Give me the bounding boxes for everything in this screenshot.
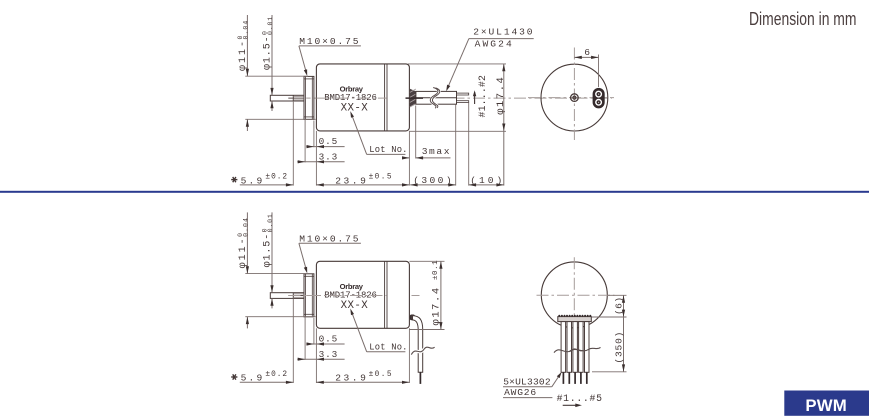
shaft [270,95,304,101]
dimension line 3max [402,157,409,159]
Lot No. leader line [351,114,367,155]
stripped conductor (PWM side view) [419,372,421,384]
UL3302 leader line [552,374,561,387]
connector serration dots [558,315,560,317]
asterisk mark [231,179,237,181]
dimension 0.5 extension lines [313,121,315,148]
shaft step line [292,95,294,101]
svg-text:0.04: 0.04 [243,20,250,40]
dimension line 0.5 [306,343,344,345]
centerline (side view axis, PWM variant) [289,295,420,297]
svg-text:5.9: 5.9 [241,175,265,186]
label phi11 -0/-0.04 (rotated) [237,20,250,71]
svg-text:23.9: 23.9 [335,373,368,384]
UL1430 leader line [447,39,469,89]
svg-text:φ11-: φ11- [238,236,249,268]
svg-text:0.5: 0.5 [319,136,339,147]
motor body [316,64,409,131]
svg-text:2×UL1430: 2×UL1430 [473,27,534,38]
dimension line 23.9 [316,184,409,186]
dimension line phi1.5 [271,212,273,292]
M10 leader line [299,243,307,271]
svg-text:5×UL3302: 5×UL3302 [503,376,551,387]
threaded boss M10 outline [304,76,314,119]
svg-text:φ1.5-: φ1.5- [262,233,273,268]
svg-text:0.5: 0.5 [319,334,339,345]
extension line wire insulation end [455,105,457,186]
dimension line 5.9 [240,381,293,383]
dimension 0.5 extension lines [313,318,315,345]
wire break symbol (PWM side view) [411,347,434,354]
asterisk mark [231,376,237,378]
centerline dark segment through shaft [288,97,304,99]
svg-text:φ1.5-: φ1.5- [262,35,273,70]
dimension line 0.5 [306,146,344,148]
wire break symbol (PWM end view) [554,349,584,353]
dimension line (300) [410,184,456,186]
extension line body left [315,131,317,186]
M10 leader line [299,46,307,74]
wire connector block (PWM) [558,317,592,322]
end view horizontal centerline (PWM) [537,294,615,296]
phi11 extension lines [245,273,308,275]
centerline dark segment through wire exit [406,97,424,99]
extension line body right [408,131,410,186]
centerline dash over boss [306,295,310,297]
label phi1.5 -0/-0.01 (rotated) [261,16,274,70]
svg-text:PWM: PWM [805,396,847,415]
svg-text:23.9: 23.9 [335,175,368,186]
centerline over model text [316,97,386,99]
svg-text:0.01: 0.01 [267,213,274,232]
dimension line phi1.5 [271,15,273,95]
svg-text:±0.5: ±0.5 [369,174,393,182]
svg-text:5.9: 5.9 [241,373,265,384]
shaft inner lines [293,96,304,98]
svg-text:3.3: 3.3 [319,349,339,360]
dimension line 6 [574,56,598,58]
label phi17.4 (rotated) [495,76,507,115]
svg-text:Lot No.: Lot No. [369,145,407,155]
dimension line (10) [469,184,504,186]
label (350) rotated [614,331,625,364]
svg-text:(350): (350) [614,331,625,364]
svg-text:Orbray: Orbray [340,85,364,94]
dimension line phi11 [246,212,248,273]
dimension line phi17.4 [503,64,505,186]
end view shaft circles [571,94,579,102]
svg-text:#1...#5: #1...#5 [557,393,603,404]
svg-text:6: 6 [584,47,590,58]
svg-text:φ11-: φ11- [238,39,249,71]
end view circle (PWM) [541,262,607,328]
svg-text:XX-X: XX-X [341,103,369,115]
extension line body right [408,328,410,383]
dimension line 3.3 [297,358,344,360]
dimension line 3.3 [297,161,344,163]
phi17.4 lower extension crossing wire [414,329,445,331]
end view horizontal centerline [528,97,614,99]
label (6) rotated [613,297,624,315]
terminal hole #2 [596,91,602,97]
motor body [316,261,409,328]
svg-text:Dimension in mm: Dimension in mm [749,9,857,29]
svg-text:AWG24: AWG24 [475,39,514,50]
svg-text:±0.1: ±0.1 [432,260,440,280]
(6)/(350) extension lines [608,294,627,296]
extension line shaft step [292,298,294,383]
phi17.4+-0.1 dimension line (PWM view) [440,261,442,329]
five lead wires (PWM) [561,322,566,373]
label phi17.4 +-0.1 (rotated) [430,260,442,326]
svg-text:φ17.4: φ17.4 [495,76,507,115]
end view vertical centerline (PWM) [573,257,575,339]
stripped conductor #2 (top) [457,93,469,95]
wire break symbol [431,88,438,108]
svg-text:(300): (300) [413,175,454,186]
dimension (6) and (350) vertical line [623,295,625,372]
svg-text:±0.2: ±0.2 [265,371,288,379]
extension line shaft step [292,101,294,186]
five stripped conductors (PWM) [562,372,564,384]
label phi11 -0/-0.04 (rotated) [237,217,250,268]
svg-text:Orbray: Orbray [340,282,364,291]
svg-text:0.01: 0.01 [267,16,274,35]
centerline dark segment through shaft [288,295,304,297]
centerline (side view axis) [289,97,613,99]
dimension 3.3 extension line [304,119,306,162]
svg-text:AWG26: AWG26 [504,387,537,398]
dimension 3max extension line [415,106,417,159]
threaded boss M10 outline [304,274,314,317]
dimension line phi11 [246,15,248,76]
centerline dash over boss [306,97,310,99]
lead wire curved tube (PWM) [413,316,423,373]
svg-text:(6): (6) [613,297,624,315]
phi17.4+-0.1 extension lines [409,260,444,262]
svg-text:φ17.4: φ17.4 [430,286,442,325]
svg-text:Lot No.: Lot No. [369,342,407,352]
threaded boss inner lines [305,76,307,119]
dimension line 23.9 [316,381,409,383]
dimension 3.3 extension line [304,317,306,360]
svg-text:±0.5: ±0.5 [369,371,393,379]
dimension 6 extension line [598,55,600,88]
end view vertical centerline [573,48,575,141]
extension line conductor end [468,103,470,186]
lead wire separation line [416,97,457,99]
dimension line 5.9 [240,184,293,186]
label #1...#2 (rotated) with arrow [477,75,488,118]
label phi1.5 -0/-0.01 (rotated) [261,213,274,267]
wire exit hatched bushing [410,89,416,107]
wire exit grommet (PWM) [410,315,414,320]
shaft [270,293,304,299]
terminal hole #1 [596,100,602,106]
centerline over model text [289,295,387,297]
svg-text:#1...#2: #1...#2 [477,75,488,118]
svg-text:0.04: 0.04 [243,217,250,237]
terminal connector (stadium shape) [593,89,604,108]
phi11 extension lines [245,75,308,77]
numbering direction arrow [563,404,577,406]
motor body divider (end cap seam) [384,64,386,131]
svg-text:M10×0.75: M10×0.75 [299,233,360,244]
stripped conductor #1 (bottom) [457,101,469,103]
Lot No. leader line [351,311,367,352]
threaded boss inner lines [305,274,307,317]
blue separator rule [0,191,869,193]
svg-text:3.3: 3.3 [319,151,339,162]
extension line body left [315,328,317,383]
svg-text:±0.2: ±0.2 [265,174,288,182]
PWM badge [784,391,869,416]
motor body divider (end cap seam) [384,261,386,328]
svg-text:M10×0.75: M10×0.75 [299,36,360,47]
lead wire bundle [416,91,457,104]
svg-text:XX-X: XX-X [341,300,369,312]
svg-text:(10): (10) [470,175,505,186]
phi17.4 extension lines [408,63,506,65]
svg-text:3max: 3max [422,146,451,157]
end view circle (rear) [541,64,608,131]
shaft step line [292,293,294,299]
shaft inner lines [293,293,304,295]
